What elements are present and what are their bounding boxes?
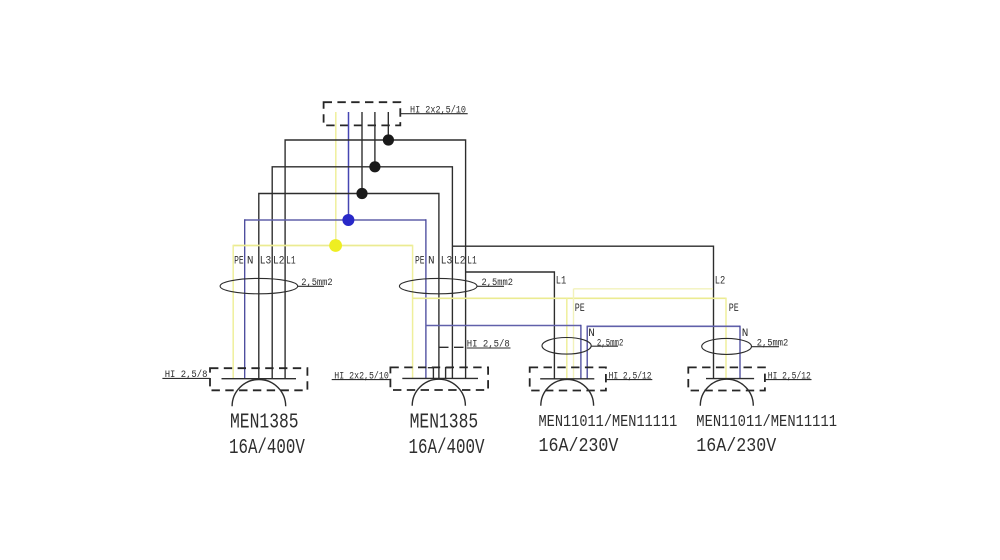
svg-text:16A/400V: 16A/400V: [229, 437, 305, 460]
svg-text:MEN1385: MEN1385: [230, 412, 299, 435]
cable ellipse socket2: [399, 278, 477, 293]
svg-text:MEN11011/MEN11111: MEN11011/MEN11111: [696, 412, 837, 431]
socket1 terminal line: [222, 378, 297, 380]
svg-text:PE: PE: [234, 256, 244, 268]
wire stub PE (yellow) from box: [335, 112, 337, 246]
wire branch PE to socket3/socket4: [413, 297, 726, 299]
wire L2 (black): horizontal + drops to socket1 and socket2: [272, 167, 452, 379]
svg-text:2,5mm2: 2,5mm2: [597, 337, 624, 349]
socket4 terminal line: [706, 378, 754, 380]
svg-text:16A/230V: 16A/230V: [539, 435, 619, 457]
distribution box (dashed): [324, 102, 401, 125]
junction dot L1 (black): [383, 134, 394, 145]
cable ellipse socket4: [702, 338, 752, 354]
svg-text:PE: PE: [575, 303, 585, 315]
wire PE link socket3 to socket4 (pale): [573, 289, 575, 379]
wire PE drop socket3: [566, 298, 568, 379]
svg-text:PE: PE: [729, 303, 739, 315]
socket2 dome: [412, 379, 465, 406]
socket3 dome: [541, 379, 594, 405]
svg-text:L2: L2: [273, 256, 285, 268]
wire branch L2 to socket4 L2: [452, 246, 713, 378]
svg-text:HI 2,5/12: HI 2,5/12: [768, 371, 811, 383]
svg-text:L1: L1: [286, 256, 296, 268]
svg-text:L1: L1: [467, 256, 477, 268]
socket3 box (dashed): [530, 367, 606, 390]
svg-text:MEN11011/MEN11111: MEN11011/MEN11111: [539, 412, 678, 431]
cable ellipse socket1: [220, 278, 298, 293]
svg-text:N: N: [742, 328, 749, 340]
svg-text:N: N: [588, 328, 595, 340]
wire N link socket3 to socket4: [586, 326, 588, 379]
junction dot N (blue): [342, 214, 354, 226]
cable ellipse socket3: [542, 338, 591, 355]
socket3 terminal line: [540, 378, 594, 380]
svg-text:HI 2,5/8: HI 2,5/8: [165, 369, 208, 381]
svg-text:N: N: [247, 256, 254, 268]
svg-text:L3: L3: [441, 256, 453, 268]
label HI 2x2,5/10 (top leader): [400, 113, 467, 115]
svg-text:HI 2,5/8: HI 2,5/8: [467, 339, 510, 351]
wire stub L3 from box: [361, 112, 363, 194]
wire branch L1 to socket3 L1: [466, 272, 555, 379]
wire stub L1 from box: [387, 112, 389, 140]
socket2 terminal line: [402, 377, 478, 379]
junction dot PE (yellow): [329, 239, 342, 252]
svg-text:2,5mm2: 2,5mm2: [482, 277, 514, 289]
label 2,5mm2 socket3: [591, 345, 618, 347]
junction dot L2 (black): [369, 161, 380, 172]
wire L3 (black): horizontal + drops to socket1 and socket2: [259, 194, 439, 379]
svg-text:N: N: [428, 256, 435, 268]
socket2 cable-entry bracket left: [428, 368, 434, 379]
socket1 box (dashed): [210, 368, 307, 390]
svg-text:HI 2x2,5/10: HI 2x2,5/10: [334, 371, 389, 383]
svg-text:PE: PE: [415, 256, 425, 268]
wire N (blue): horizontal + drops to socket1 and socket2: [245, 219, 426, 221]
svg-text:16A/400V: 16A/400V: [409, 437, 485, 460]
wire stub N (blue) from box: [348, 112, 350, 220]
junction dot L3 (black): [356, 188, 367, 199]
socket4 dome: [700, 379, 753, 406]
svg-text:L2: L2: [715, 276, 726, 288]
socket2 box (dashed): [390, 367, 488, 390]
wire PE (yellow): horizontal + drops to socket1 and socket2: [233, 245, 412, 247]
svg-text:2,5mm2: 2,5mm2: [301, 277, 333, 289]
socket2 cable-entry bracket right: [446, 368, 452, 379]
svg-text:HI 2x2,5/10: HI 2x2,5/10: [410, 104, 466, 116]
socket1 dome: [232, 379, 286, 406]
svg-text:2,5mm2: 2,5mm2: [757, 338, 789, 350]
socket4 box (dashed): [688, 367, 765, 390]
svg-text:16A/230V: 16A/230V: [696, 435, 776, 457]
label 2,5mm2 socket4: [752, 346, 780, 348]
svg-text:L1: L1: [556, 276, 567, 288]
svg-text:L2: L2: [454, 256, 466, 268]
label 2,5mm2 socket1: [298, 285, 324, 287]
label 2,5mm2 socket2: [477, 285, 504, 287]
wire branch N to socket3: [426, 325, 581, 327]
dashed leader (socket2 cable marker): [439, 346, 466, 348]
svg-text:L3: L3: [260, 256, 272, 268]
wire L1 (black): horizontal + drops to socket1 and socket2: [285, 140, 466, 379]
wire stub L2 from box: [374, 112, 376, 167]
svg-text:MEN1385: MEN1385: [410, 412, 479, 435]
svg-text:HI 2,5/12: HI 2,5/12: [609, 371, 652, 383]
